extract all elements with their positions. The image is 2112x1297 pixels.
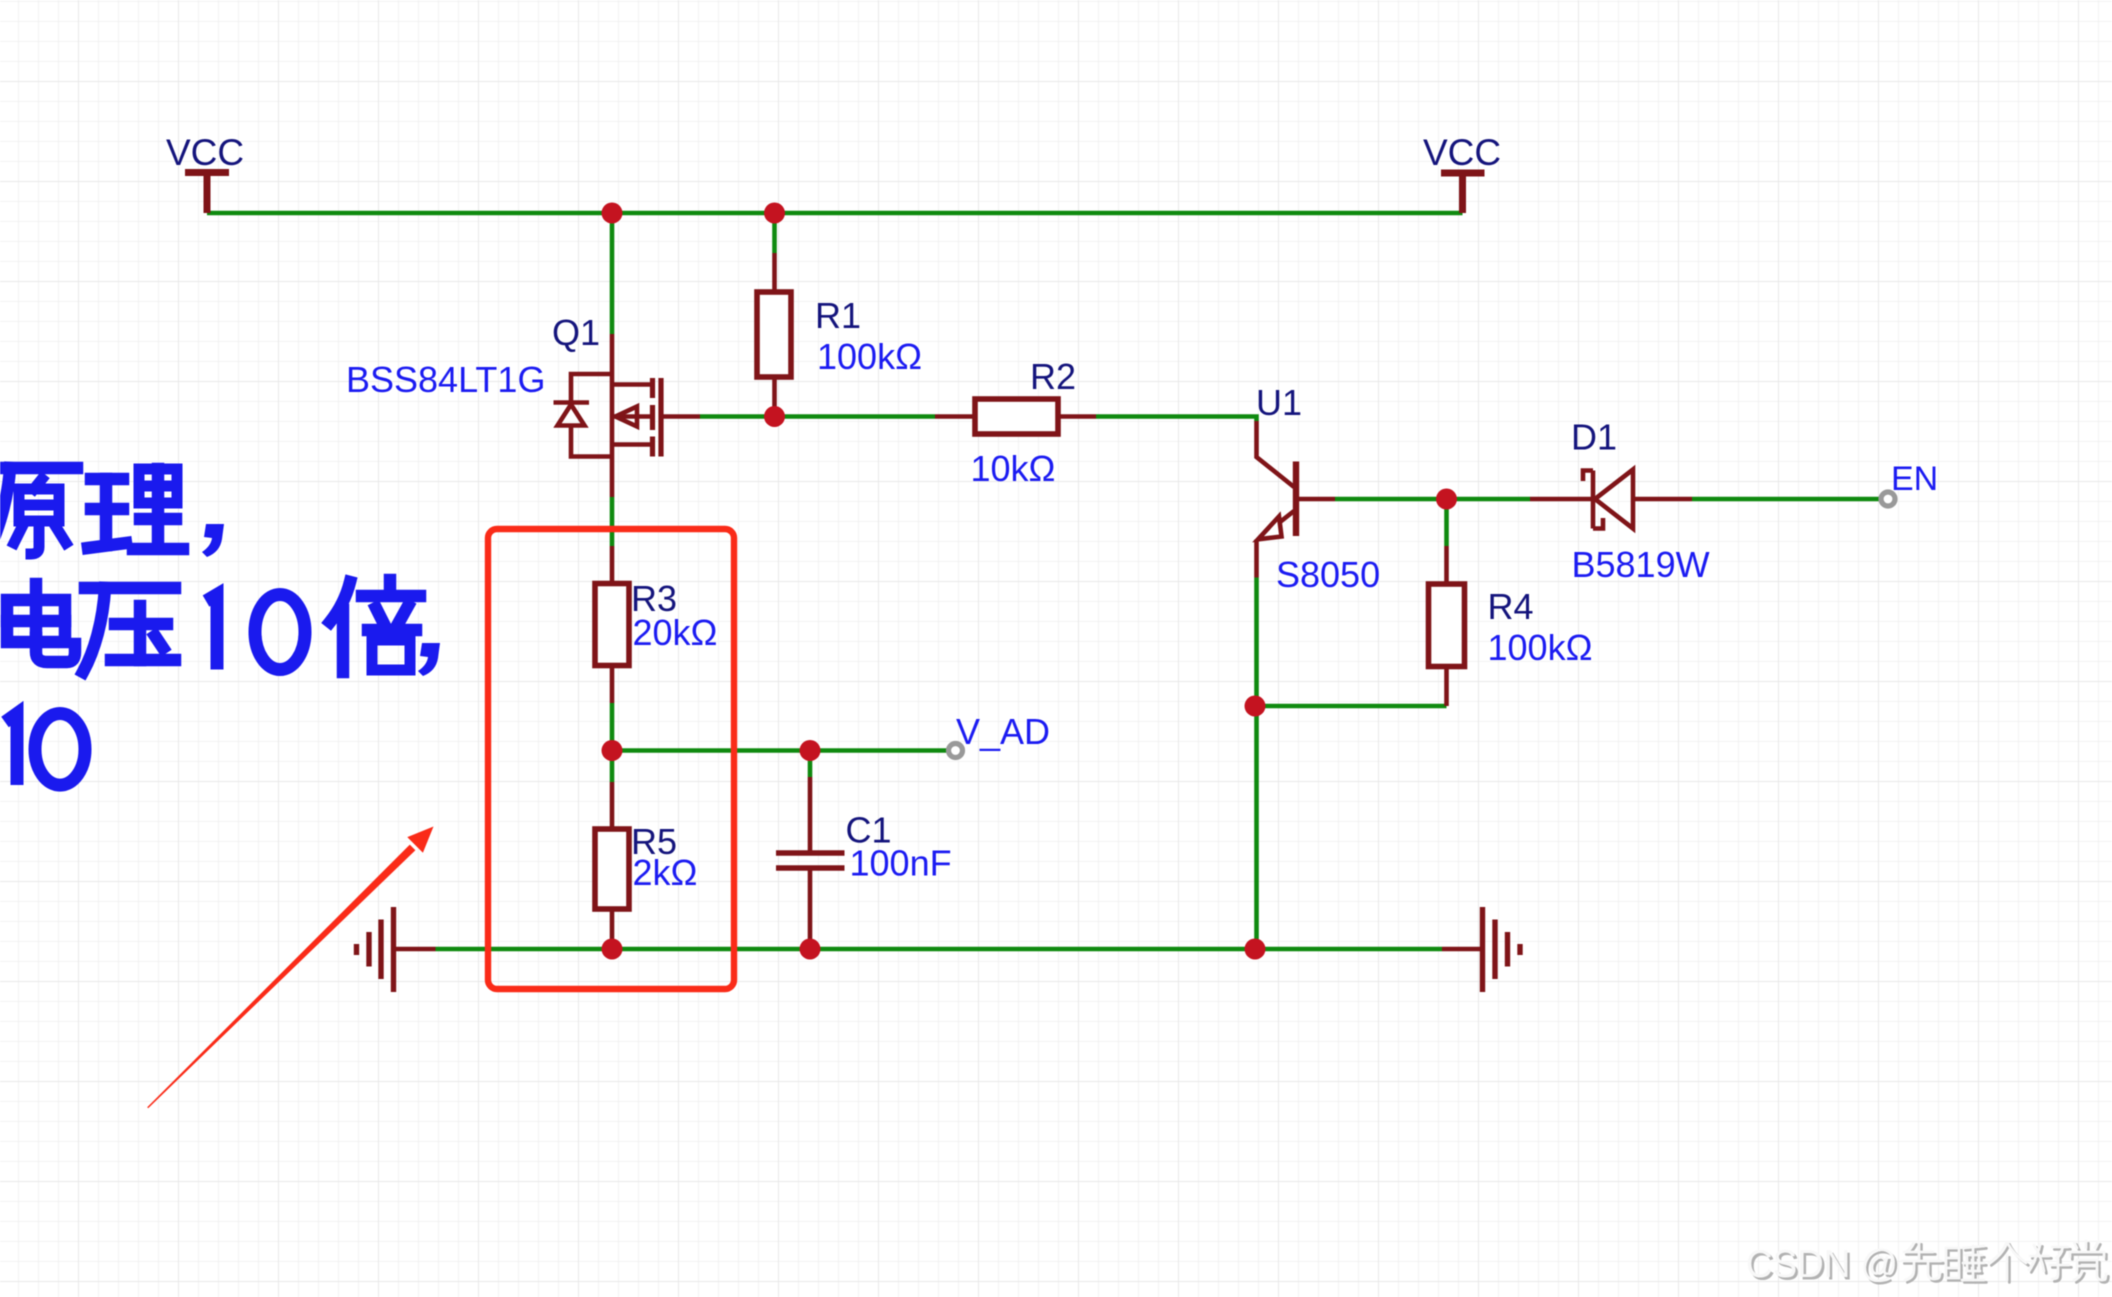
svg-text:VCC: VCC [1423,132,1501,173]
svg-text:R4: R4 [1488,586,1534,627]
svg-text:S8050: S8050 [1276,554,1380,595]
svg-text:VCC: VCC [166,132,244,173]
svg-text:100kΩ: 100kΩ [1488,627,1593,668]
svg-text:B5819W: B5819W [1572,544,1710,585]
svg-text:100nF: 100nF [850,843,952,884]
svg-text:2kΩ: 2kΩ [633,852,698,893]
svg-text:100kΩ: 100kΩ [817,336,922,377]
svg-text:D1: D1 [1571,417,1617,458]
svg-text:EN: EN [1891,460,1938,498]
svg-text:R1: R1 [815,295,861,336]
svg-text:V_AD: V_AD [956,711,1050,752]
svg-text:Q1: Q1 [552,312,600,353]
svg-text:BSS84LT1G: BSS84LT1G [346,359,545,400]
svg-text:R2: R2 [1030,356,1076,397]
svg-text:10kΩ: 10kΩ [971,448,1056,489]
svg-text:20kΩ: 20kΩ [633,612,718,653]
svg-text:U1: U1 [1256,382,1302,423]
